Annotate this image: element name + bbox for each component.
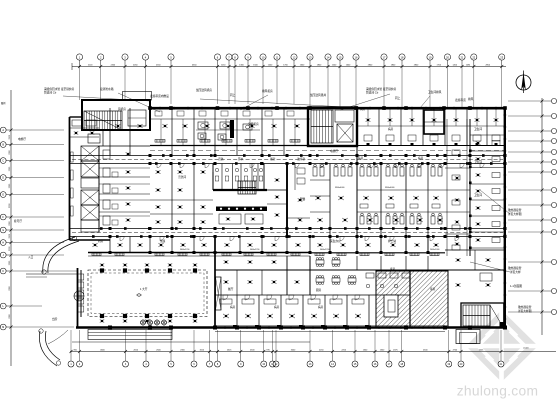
- svg-text:管道间 Cb: 管道间 Cb: [44, 91, 57, 95]
- right column rooms: [470, 135, 505, 248]
- svg-text:厨房: 厨房: [316, 288, 322, 292]
- svg-text:管道间 Cb: 管道间 Cb: [366, 91, 379, 95]
- svg-text:药房: 药房: [98, 239, 104, 243]
- svg-text:C: C: [2, 160, 4, 163]
- bottom right porch: [456, 330, 480, 344]
- svg-text:散热器接管: 散热器接管: [518, 305, 532, 309]
- office fixtures: [156, 170, 206, 224]
- ward rooms dividers: [310, 146, 445, 252]
- svg-text:污洗间: 污洗间: [178, 175, 186, 179]
- right dimension line: [541, 98, 544, 335]
- office rooms walls: [150, 164, 213, 229]
- service stair steps: [238, 181, 256, 194]
- columns corridor B: [109, 227, 507, 238]
- top band radiators: [155, 140, 300, 143]
- svg-text:医生办公: 医生办公: [330, 239, 341, 243]
- right grid extension lines: [508, 101, 542, 312]
- roof projection: [123, 92, 152, 101]
- annotation leaders: [63, 93, 510, 272]
- svg-text:电梯厅: 电梯厅: [330, 149, 338, 153]
- door blocks corridor A: [155, 154, 493, 165]
- svg-text:卫生间: 卫生间: [474, 193, 482, 197]
- left wing radiator column: [71, 152, 74, 216]
- svg-text:走廊吊顶内敷设: 走廊吊顶内敷设: [150, 94, 169, 98]
- window ticks bottom wall: [225, 326, 445, 329]
- ward beds: [313, 164, 442, 176]
- building outer wall bottom: [76, 326, 506, 329]
- dark wall x287: [267, 164, 287, 237]
- small rooms left of stair: [287, 164, 310, 222]
- svg-text:采暖供回水管 接至锅炉房: 采暖供回水管 接至锅炉房: [44, 87, 75, 91]
- duct shaft box right wing: [424, 110, 444, 134]
- central stair landing: [335, 110, 354, 122]
- top band closet partitions: [155, 111, 295, 146]
- top band right ward dividers: [357, 108, 505, 146]
- bottom dimension numbers: [74, 348, 530, 352]
- corridor A duct dashed line: [72, 159, 503, 161]
- inner face lines: [150, 110, 505, 326]
- svg-text:病房: 病房: [388, 127, 394, 131]
- building outer wall right: [504, 107, 506, 329]
- svg-text:G: G: [2, 229, 4, 232]
- svg-text:接消防水箱: 接消防水箱: [100, 87, 114, 91]
- central stair steps: [311, 110, 333, 143]
- corridor B door arcs: [120, 237, 459, 241]
- svg-text:详见大样图: 详见大样图: [518, 309, 532, 313]
- top band fan coils: [115, 124, 299, 128]
- annotation texts: [14, 87, 532, 321]
- right wing corridor: [447, 119, 470, 256]
- svg-text:病房: 病房: [430, 107, 436, 111]
- hatched void area: [376, 271, 448, 327]
- svg-text:病房: 病房: [358, 156, 364, 160]
- svg-text:走廊吊顶: 走廊吊顶: [455, 98, 466, 102]
- top band right ward fixtures: [364, 118, 500, 145]
- svg-text:库房: 库房: [390, 267, 396, 271]
- hall columns bottom: [100, 314, 197, 323]
- tower stair steps: [84, 111, 122, 130]
- svg-text:3600x2700: 3600x2700: [180, 249, 189, 251]
- top grid extension lines: [80, 67, 502, 109]
- bottom right stair: [461, 303, 505, 329]
- svg-text:2400x2000: 2400x2000: [430, 249, 439, 251]
- columns corridor A: [149, 154, 507, 165]
- svg-text:入口: 入口: [28, 255, 34, 259]
- left grid bubbles: [0, 127, 11, 330]
- room dimension texts: [180, 187, 439, 251]
- lower band room dividers: [110, 237, 428, 253]
- svg-text:3600x2700: 3600x2700: [320, 249, 329, 251]
- svg-text:3300x6000: 3300x6000: [335, 187, 344, 189]
- svg-text:库房: 库房: [430, 287, 436, 291]
- svg-text:浴室: 浴室: [270, 157, 276, 161]
- svg-text:加压送风竖井: 加压送风竖井: [310, 93, 326, 97]
- dining tables: [316, 258, 356, 285]
- mid wing south wall with windows: [88, 253, 445, 257]
- left wing rooms dividers: [70, 128, 151, 240]
- building outer wall left lower: [77, 268, 79, 327]
- svg-text:餐厅: 餐厅: [228, 287, 234, 291]
- curved wall lower: [39, 329, 68, 366]
- fan coil cluster entrance: [140, 320, 166, 325]
- svg-text:空调机房: 空调机房: [248, 122, 259, 126]
- top band machinery room: [196, 120, 260, 140]
- top band right partitions: [368, 108, 496, 126]
- lower right rooms: [445, 250, 505, 327]
- kitchen fixtures: [224, 260, 411, 287]
- bottom rooms fan coils: [220, 299, 369, 328]
- left grid extension lines: [11, 130, 77, 327]
- svg-text:排风: 排风: [468, 97, 474, 101]
- building outer wall left upper: [69, 117, 71, 240]
- revolving door: [74, 291, 84, 301]
- svg-text:污洗: 污洗: [218, 157, 224, 161]
- svg-text:配餐: 配餐: [300, 197, 306, 201]
- svg-text:散热器接管: 散热器接管: [508, 208, 522, 212]
- columns bottom wall: [108, 326, 507, 330]
- bottom dimension line: [70, 342, 557, 353]
- mid band north wing partitions: [99, 168, 150, 225]
- svg-text:1-1剖面图: 1-1剖面图: [510, 284, 522, 288]
- central elevator: [337, 124, 353, 142]
- svg-text:卫生间: 卫生间: [474, 160, 482, 164]
- curve connector lines: [26, 274, 77, 277]
- building outer wall top: [150, 107, 506, 109]
- svg-text:病房: 病房: [418, 156, 424, 160]
- svg-text:卫生间: 卫生间: [474, 127, 482, 131]
- svg-text:病房: 病房: [318, 305, 324, 309]
- window ticks top wall: [160, 107, 496, 110]
- hall left wall: [78, 270, 84, 317]
- curved wall upper: [42, 236, 79, 274]
- hall label: [136, 287, 148, 297]
- svg-text:同上: 同上: [230, 93, 236, 97]
- svg-text:详见大样图: 详见大样图: [508, 212, 522, 216]
- door blocks corridor B: [92, 227, 467, 238]
- svg-text:台阶: 台阶: [52, 317, 58, 321]
- ward mid fixtures: [315, 196, 443, 222]
- svg-text:3600x2700: 3600x2700: [250, 249, 259, 251]
- svg-text:散热器接管: 散热器接管: [508, 266, 522, 270]
- svg-text:挂号厅: 挂号厅: [14, 219, 22, 223]
- right column fixtures: [469, 141, 500, 250]
- svg-text:同上: 同上: [395, 96, 401, 100]
- svg-text:3300x6000: 3300x6000: [385, 187, 394, 189]
- top dimension line: [72, 63, 506, 70]
- central stair block walls: [308, 108, 357, 147]
- svg-text:采暖供回水管 接至锅炉房: 采暖供回水管 接至锅炉房: [366, 87, 397, 91]
- bottom rooms walls: [215, 237, 369, 328]
- right wing small fixtures: [452, 150, 460, 250]
- watermark logo diamond: [464, 308, 540, 384]
- top grid bubbles: [76, 54, 504, 67]
- corridor A door arcs: [157, 164, 484, 168]
- left wing fixtures: [72, 120, 130, 225]
- toilet rooms walls: [213, 164, 264, 191]
- left dimension numbers: [9, 134, 11, 319]
- ward beds lower row: [360, 213, 442, 224]
- svg-text:±0.00: ±0.00: [523, 348, 529, 350]
- hall columns top: [100, 263, 197, 272]
- columns mid wing south: [109, 251, 430, 254]
- right wing cross walls: [445, 168, 470, 246]
- corridor B duct dashed line: [72, 232, 503, 234]
- corridor B lines: [69, 229, 505, 237]
- svg-text:值班: 值班: [160, 239, 166, 243]
- entrance terrace steps: [88, 330, 172, 340]
- lower band radiators: [92, 253, 439, 256]
- bottom extension stems: [71, 330, 501, 352]
- sidewalk line below building: [215, 331, 445, 333]
- svg-text:详见大样: 详见大样: [510, 270, 521, 274]
- reception desks: [219, 214, 263, 224]
- service stair walls: [213, 172, 267, 190]
- left dimension line: [10, 90, 13, 366]
- hall side duct shaft: [216, 277, 222, 310]
- top dimension numbers: [88, 64, 491, 66]
- north arrow: [516, 71, 531, 94]
- top band room dividers left: [99, 108, 310, 155]
- bottom rooms doors: [223, 295, 360, 300]
- ceiling dash line: [150, 150, 505, 152]
- svg-text:病房: 病房: [274, 305, 280, 309]
- svg-text:卫生间排风: 卫生间排风: [428, 90, 442, 94]
- svg-text:M: M: [2, 326, 4, 329]
- bottom grid bubbles: [68, 352, 504, 368]
- svg-text:H: H: [2, 242, 4, 245]
- right grid bubbles: [542, 98, 557, 314]
- stair tower outline: [70, 100, 151, 130]
- entrance hall dashed outline: [88, 270, 207, 317]
- tower room walls: [88, 110, 150, 146]
- svg-text:1 大厅: 1 大厅: [140, 287, 148, 291]
- corridor A lines: [70, 156, 505, 164]
- toilet fixtures: [215, 168, 263, 181]
- svg-text:病房: 病房: [230, 305, 236, 309]
- columns top wall: [148, 106, 507, 110]
- svg-text:zhulong.com: zhulong.com: [457, 384, 539, 399]
- hatch room door: [384, 295, 398, 317]
- dining kitchen walls: [215, 256, 450, 295]
- svg-text:护士站: 护士站: [388, 239, 396, 243]
- svg-text:排风机房: 排风机房: [262, 89, 273, 93]
- svg-text:加压送风机房: 加压送风机房: [196, 88, 212, 92]
- svg-text:电梯厅: 电梯厅: [18, 137, 26, 141]
- svg-text:治疗室: 治疗室: [297, 157, 305, 161]
- svg-text:风机房: 风机房: [118, 107, 126, 111]
- lower band fan coils: [92, 243, 438, 247]
- wall through hatch: [409, 271, 411, 327]
- svg-text:开水: 开水: [238, 157, 244, 161]
- svg-text:D: D: [2, 177, 4, 180]
- window ticks right wall: [504, 115, 507, 319]
- reception black bar: [216, 207, 267, 212]
- svg-text:病房: 病房: [360, 107, 366, 111]
- left wing elevators: [81, 146, 99, 232]
